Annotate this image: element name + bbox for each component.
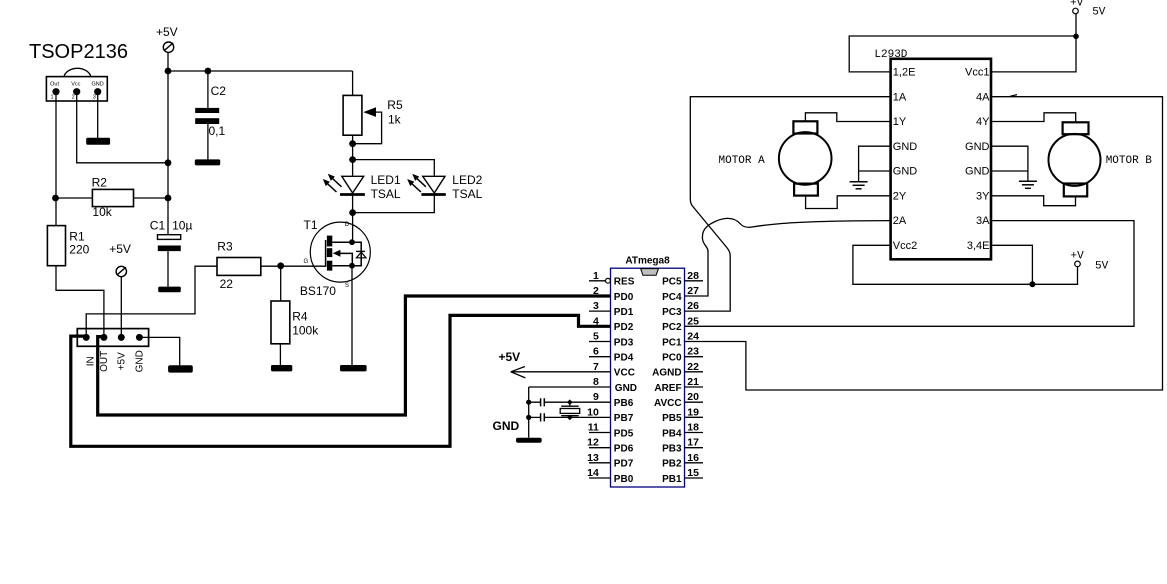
svg-text:PC0: PC0 [662, 353, 682, 364]
svg-text:10k: 10k [92, 205, 112, 219]
svg-text:100k: 100k [292, 324, 319, 338]
svg-text:R5: R5 [387, 98, 403, 112]
svg-text:15: 15 [687, 467, 699, 479]
svg-text:+V: +V [1071, 251, 1085, 263]
svg-text:GND: GND [893, 166, 918, 178]
svg-text:PB6: PB6 [614, 398, 634, 409]
svg-text:+5V: +5V [499, 350, 521, 364]
svg-text:17: 17 [687, 437, 699, 449]
svg-text:28: 28 [687, 270, 699, 282]
svg-text:4: 4 [593, 315, 599, 327]
svg-text:27: 27 [687, 285, 699, 297]
svg-text:16: 16 [687, 452, 699, 464]
svg-text:26: 26 [687, 300, 699, 312]
svg-text:3A: 3A [976, 215, 990, 227]
svg-text:PD0: PD0 [614, 292, 634, 303]
svg-text:+5V: +5V [109, 242, 131, 256]
svg-text:PC5: PC5 [662, 277, 682, 288]
svg-text:GND: GND [893, 141, 918, 153]
svg-text:PD6: PD6 [614, 444, 634, 455]
svg-text:3,4E: 3,4E [967, 240, 990, 252]
svg-text:RES: RES [614, 277, 635, 288]
svg-text:1A: 1A [893, 91, 907, 103]
svg-text:12: 12 [587, 437, 599, 449]
svg-text:Out: Out [50, 82, 59, 88]
svg-text:TSOP2136: TSOP2136 [29, 41, 128, 63]
svg-text:+V: +V [1070, 0, 1084, 10]
svg-text:R2: R2 [92, 176, 108, 190]
svg-text:9: 9 [593, 391, 599, 403]
svg-text:3Y: 3Y [976, 190, 990, 202]
svg-text:C2: C2 [211, 84, 227, 98]
svg-text:PC2: PC2 [662, 322, 682, 333]
svg-text:G: G [304, 259, 309, 265]
svg-text:13: 13 [587, 452, 599, 464]
svg-text:5V: 5V [1092, 7, 1106, 19]
svg-text:PD7: PD7 [614, 459, 634, 470]
svg-text:2Y: 2Y [893, 190, 907, 202]
svg-text:Vcc: Vcc [71, 82, 80, 88]
svg-text:PD2: PD2 [614, 322, 634, 333]
svg-text:AVCC: AVCC [654, 398, 682, 409]
svg-text:L293D: L293D [874, 49, 907, 61]
svg-text:R3: R3 [217, 240, 233, 254]
svg-text:Vcc1: Vcc1 [965, 67, 989, 79]
svg-text:BS170: BS170 [300, 284, 336, 298]
svg-text:0,1: 0,1 [209, 124, 226, 138]
svg-text:3: 3 [93, 94, 96, 100]
svg-text:PB3: PB3 [662, 444, 682, 455]
svg-text:18: 18 [687, 422, 699, 434]
svg-text:1: 1 [593, 270, 599, 282]
svg-text:+5V: +5V [117, 352, 128, 370]
svg-text:10µ: 10µ [172, 219, 192, 233]
svg-text:4Y: 4Y [976, 116, 990, 128]
svg-text:11: 11 [588, 422, 599, 434]
svg-text:LED1: LED1 [371, 173, 401, 187]
svg-text:AGND: AGND [652, 368, 681, 379]
svg-text:S: S [345, 283, 349, 289]
svg-text:C1: C1 [150, 219, 166, 233]
svg-text:MOTOR A: MOTOR A [719, 155, 766, 167]
svg-text:7: 7 [593, 361, 599, 373]
svg-text:PD5: PD5 [614, 428, 634, 439]
svg-text:20: 20 [687, 391, 699, 403]
svg-text:GND: GND [965, 141, 990, 153]
svg-text:23: 23 [687, 346, 699, 358]
svg-text:D: D [345, 222, 350, 228]
svg-text:TSAL: TSAL [452, 187, 482, 201]
svg-text:1k: 1k [388, 113, 402, 127]
svg-text:14: 14 [587, 467, 599, 479]
svg-text:MOTOR B: MOTOR B [1106, 155, 1153, 167]
svg-text:6: 6 [593, 346, 599, 358]
svg-text:22: 22 [220, 277, 234, 291]
svg-text:24: 24 [687, 331, 699, 343]
svg-text:ATmega8: ATmega8 [625, 256, 670, 267]
svg-text:PB7: PB7 [614, 413, 634, 424]
svg-text:21: 21 [687, 376, 699, 388]
svg-text:8: 8 [593, 376, 599, 388]
svg-text:4A: 4A [976, 91, 990, 103]
svg-text:Vcc2: Vcc2 [893, 240, 917, 252]
svg-text:GND: GND [135, 350, 146, 372]
svg-text:PC1: PC1 [662, 337, 682, 348]
svg-text:10: 10 [587, 406, 599, 418]
svg-text:3: 3 [593, 300, 599, 312]
svg-text:PD4: PD4 [614, 353, 634, 364]
svg-text:VCC: VCC [614, 368, 635, 379]
svg-text:PD1: PD1 [614, 307, 634, 318]
svg-text:T1: T1 [304, 218, 318, 232]
svg-text:GND: GND [615, 383, 637, 394]
svg-text:1,2E: 1,2E [893, 67, 916, 79]
svg-text:220: 220 [69, 243, 89, 257]
svg-text:PB1: PB1 [662, 474, 682, 485]
svg-text:1Y: 1Y [893, 116, 907, 128]
svg-text:PD3: PD3 [614, 337, 634, 348]
svg-text:IN: IN [85, 356, 96, 366]
svg-text:PC3: PC3 [662, 307, 682, 318]
svg-text:AREF: AREF [654, 383, 681, 394]
svg-text:5V: 5V [1095, 261, 1109, 273]
svg-text:R1: R1 [69, 230, 85, 244]
svg-text:GND: GND [965, 166, 990, 178]
svg-text:PB2: PB2 [662, 459, 682, 470]
svg-text:OUT: OUT [99, 351, 110, 372]
svg-text:PB4: PB4 [662, 428, 682, 439]
svg-text:1: 1 [51, 94, 54, 100]
svg-text:2: 2 [593, 285, 599, 297]
svg-text:+5V: +5V [156, 25, 178, 39]
svg-text:LED2: LED2 [452, 173, 482, 187]
svg-text:2: 2 [72, 94, 75, 100]
svg-text:PC4: PC4 [662, 292, 682, 303]
svg-text:R4: R4 [292, 310, 308, 324]
svg-text:25: 25 [687, 315, 699, 327]
svg-text:PB0: PB0 [614, 474, 634, 485]
svg-text:GND: GND [493, 419, 520, 433]
svg-text:2A: 2A [893, 215, 907, 227]
svg-text:19: 19 [687, 406, 699, 418]
svg-text:TSAL: TSAL [371, 187, 401, 201]
svg-text:22: 22 [687, 361, 699, 373]
svg-text:PB5: PB5 [662, 413, 682, 424]
svg-text:GND: GND [91, 82, 103, 88]
svg-text:5: 5 [593, 331, 599, 343]
